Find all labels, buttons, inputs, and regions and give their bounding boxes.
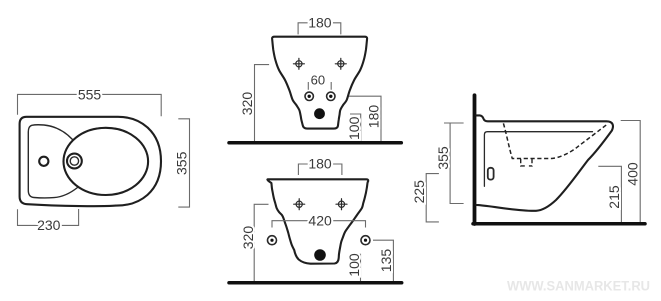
- fixing hole crosshair left (upper): [293, 58, 304, 69]
- svg-text:355: 355: [435, 146, 451, 170]
- bidet plan bowl oval: [64, 128, 149, 195]
- svg-text:180: 180: [366, 105, 382, 129]
- svg-text:100: 100: [346, 253, 362, 277]
- dim 320 line (lower): [254, 204, 268, 281]
- dim 355 line (side view): [444, 123, 464, 204]
- dim 215 line: [598, 166, 621, 222]
- svg-text:WWW.SANMARKET.RU: WWW.SANMARKET.RU: [507, 278, 650, 293]
- svg-text:180: 180: [308, 15, 332, 31]
- svg-text:400: 400: [624, 162, 640, 186]
- dim 355 line (left view): [178, 119, 189, 207]
- overflow hole: [488, 168, 494, 180]
- svg-text:320: 320: [240, 226, 256, 250]
- svg-text:355: 355: [174, 151, 190, 175]
- fixing hole crosshair left (lower): [294, 199, 305, 210]
- svg-text:215: 215: [606, 185, 622, 209]
- wall fixing hole right (lower): [361, 236, 370, 245]
- svg-text:60: 60: [311, 72, 325, 87]
- trap dashed detail: [521, 159, 532, 166]
- dim 400 line: [621, 121, 641, 223]
- floor thick line: [473, 222, 645, 226]
- svg-text:100: 100: [346, 116, 362, 140]
- svg-text:555: 555: [78, 86, 102, 102]
- svg-text:320: 320: [239, 92, 255, 116]
- wall line (lower view): [229, 281, 402, 285]
- wall line (upper view): [229, 141, 401, 145]
- dim 555 line: [18, 94, 162, 116]
- dim 60 ticks: [308, 82, 331, 90]
- bowl dashed profile: [503, 123, 606, 158]
- fixing hole crosshair right (upper): [335, 58, 346, 69]
- tap hole: [39, 157, 48, 166]
- wall thick line: [473, 95, 477, 224]
- svg-text:230: 230: [37, 217, 61, 233]
- dim 225 line: [426, 174, 439, 222]
- svg-text:135: 135: [378, 249, 394, 273]
- rear view body outline (lower): [267, 179, 368, 263]
- dim 100 line (upper): [350, 114, 361, 141]
- dim 135 line: [373, 240, 393, 281]
- drain hole (lower): [314, 249, 326, 261]
- dim 180 top bracket (lower): [298, 164, 342, 175]
- fixing hole crosshair right (lower): [336, 199, 347, 210]
- inlet hole right (upper): [327, 92, 335, 100]
- inlet hole left (upper): [305, 92, 313, 100]
- side inner rim line: [484, 132, 592, 187]
- rear view body outline (upper): [272, 37, 367, 129]
- drain hole (upper): [314, 108, 325, 119]
- svg-text:225: 225: [411, 180, 427, 204]
- drain outer ring: [67, 154, 82, 169]
- dim 230 line: [18, 209, 79, 225]
- drain inner ring: [70, 157, 78, 165]
- bidet plan outer outline: [20, 117, 161, 206]
- dim 320 line (upper): [255, 65, 270, 142]
- bidet plan inner rim collar: [28, 125, 77, 198]
- dim 180 right line (upper): [349, 96, 381, 141]
- dim 100 line (lower): [352, 254, 361, 281]
- svg-text:180: 180: [308, 156, 332, 172]
- wall fixing hole left (lower): [268, 236, 277, 245]
- svg-text:420: 420: [308, 213, 332, 229]
- dim 420 line: [272, 221, 366, 228]
- side profile outline: [476, 115, 613, 210]
- dim 180 top bracket (upper): [298, 23, 341, 35]
